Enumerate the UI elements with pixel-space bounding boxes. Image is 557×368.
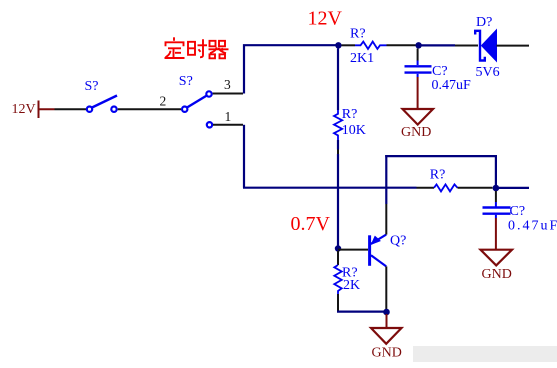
wire junction to GND symbol bbox=[386, 314, 388, 328]
junction node at 12V rail and R 10K bbox=[335, 42, 341, 48]
transistor Q? bbox=[370, 235, 387, 267]
wire diode to right end bbox=[497, 45, 530, 47]
wire base junction to transistor base bbox=[338, 249, 368, 251]
switch S2 lever bbox=[187, 96, 207, 108]
svg-text:S?: S? bbox=[85, 79, 99, 94]
switch S2 pole contact bbox=[182, 107, 187, 112]
svg-text:0.7V: 0.7V bbox=[291, 213, 331, 235]
svg-text:R?: R? bbox=[350, 27, 366, 42]
svg-text:12V: 12V bbox=[308, 7, 343, 29]
ground GND (bottom) bbox=[371, 328, 402, 344]
svg-text:Q?: Q? bbox=[390, 233, 406, 248]
svg-text:1: 1 bbox=[225, 109, 232, 124]
resistor R? 2K1 horizontal bbox=[342, 44, 356, 46]
wire emitter up to box corner bbox=[385, 204, 387, 235]
svg-text:2K1: 2K1 bbox=[350, 51, 374, 66]
switch S2 throw contact pin 3 bbox=[206, 91, 211, 96]
switch S1 left contact bbox=[87, 107, 92, 112]
wire pin3 to riser bbox=[213, 93, 243, 95]
junction node at C? top / diode branch bbox=[415, 42, 421, 48]
wire riser down from pin1 to middle rail bbox=[243, 125, 245, 188]
ground GND (top capacitor) bbox=[403, 109, 434, 125]
wire junction to zener diode bbox=[422, 44, 456, 46]
wire capacitor to GND (right) bbox=[495, 218, 497, 249]
svg-text:0.47uF: 0.47uF bbox=[508, 219, 557, 234]
switch S2 throw contact pin 1 bbox=[207, 122, 212, 127]
svg-text:0.47uF: 0.47uF bbox=[432, 78, 472, 93]
watermark gray band bottom right bbox=[413, 346, 557, 362]
wire box top to right junction bbox=[385, 156, 496, 185]
svg-text:3: 3 bbox=[224, 77, 231, 92]
wire junction to right end bbox=[499, 187, 529, 189]
label 定时器 (timer) bbox=[165, 37, 229, 58]
ground GND (right) bbox=[481, 250, 513, 266]
wire R2K bottom to emitter junction bbox=[337, 311, 387, 313]
svg-text:2: 2 bbox=[160, 94, 167, 109]
wire collector down to GND junction bbox=[385, 266, 387, 311]
wire from 12V bar to switch S? bbox=[55, 108, 87, 110]
svg-text:5V6: 5V6 bbox=[476, 65, 500, 80]
power port 12V bar bbox=[39, 101, 55, 119]
svg-text:GND: GND bbox=[482, 267, 512, 282]
resistor R? 10K vertical branch wire bbox=[337, 49, 339, 111]
svg-text:C?: C? bbox=[432, 64, 448, 79]
junction node right rail / C? bbox=[493, 185, 500, 192]
svg-text:GND: GND bbox=[372, 346, 402, 361]
switch S1 right contact bbox=[111, 107, 116, 112]
capacitor C? 0.47uF (right) lead bbox=[495, 191, 497, 202]
svg-text:GND: GND bbox=[401, 125, 431, 140]
wire riser up from pin3 to top rail and to node 12V bbox=[244, 45, 338, 93]
resistor R? (right, horizontal) bbox=[434, 184, 458, 191]
junction node base of Q? / R 2K bbox=[335, 245, 341, 251]
svg-text:12V: 12V bbox=[12, 102, 36, 117]
svg-text:D?: D? bbox=[476, 15, 492, 30]
zener diode D? 5V6 bbox=[475, 30, 496, 61]
svg-text:R?: R? bbox=[342, 107, 358, 122]
wire pin1 to riser bbox=[213, 124, 243, 126]
capacitor C? 0.47uF (top) lead bbox=[417, 49, 419, 61]
svg-text:10K: 10K bbox=[342, 123, 366, 138]
svg-text:R?: R? bbox=[430, 168, 446, 183]
wire switch S1 to switch S2, net 2 bbox=[118, 108, 181, 110]
switch S1 lever bbox=[92, 96, 117, 108]
junction node emitter / GND bbox=[383, 309, 390, 316]
wire capacitor to GND bbox=[417, 77, 419, 109]
middle rail wire bbox=[243, 187, 417, 189]
resistor R? 2K vertical bbox=[337, 251, 339, 265]
svg-text:S?: S? bbox=[179, 74, 193, 89]
capacitor plates (right) bbox=[483, 208, 511, 214]
capacitor C? plates bbox=[405, 66, 432, 72]
svg-text:2K: 2K bbox=[343, 278, 360, 293]
svg-text:C?: C? bbox=[510, 204, 526, 219]
